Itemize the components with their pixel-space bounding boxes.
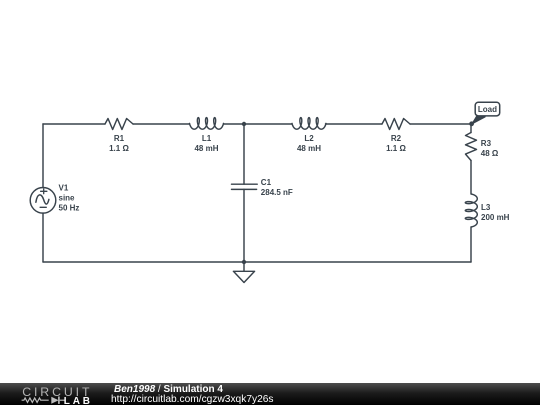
flag Load tail: [472, 115, 485, 124]
inductor L2: [292, 118, 326, 130]
wire top rail left of R1: [43, 123, 105, 125]
footer caption: [0, 383, 540, 405]
node junction at L1/L2/C1: [242, 122, 246, 126]
wire R3 to L3: [470, 161, 472, 195]
wire L1 to L2: [224, 123, 293, 125]
CircuitLab logo: [14, 383, 114, 405]
svg-text:48 mH: 48 mH: [194, 144, 218, 153]
wire R2 to node: [410, 123, 471, 125]
inductor L1: [190, 118, 224, 130]
wire bottom rail: [43, 261, 471, 263]
wire L2 to R2: [326, 123, 383, 125]
wire left rail lower: [42, 213, 44, 262]
svg-text:L1: L1: [202, 134, 212, 143]
svg-text:284.5 nF: 284.5 nF: [261, 188, 293, 197]
svg-text:L2: L2: [304, 134, 314, 143]
svg-text:50 Hz: 50 Hz: [59, 204, 80, 213]
voltage source V1: [30, 188, 56, 214]
svg-text:V1: V1: [59, 184, 69, 193]
wire L3 to bottom rail: [470, 227, 472, 262]
node junction at C1 bottom: [242, 260, 246, 264]
wire left rail upper: [42, 124, 44, 188]
svg-text:200 mH: 200 mH: [481, 213, 510, 222]
svg-text:R1: R1: [114, 134, 125, 143]
flag Load box: [475, 102, 500, 116]
node junction at load: [469, 121, 474, 126]
logo diode: [51, 397, 58, 404]
inductor L3: [465, 194, 477, 227]
wire right rail top to R3: [470, 124, 472, 133]
svg-text:1.1 Ω: 1.1 Ω: [109, 144, 129, 153]
wire C1 branch lower: [243, 189, 245, 262]
svg-text:C1: C1: [261, 178, 272, 187]
ground: [233, 262, 254, 283]
svg-text:48 mH: 48 mH: [297, 144, 321, 153]
svg-text:R2: R2: [391, 134, 402, 143]
resistor R2: [382, 119, 410, 130]
resistor R1: [105, 119, 133, 130]
footer bar: [0, 383, 540, 405]
wire C1 branch upper: [243, 124, 245, 184]
capacitor C1: [232, 184, 258, 189]
svg-text:1.1 Ω: 1.1 Ω: [386, 144, 406, 153]
logo resistor: [22, 398, 49, 402]
wire R1 to L1: [133, 123, 190, 125]
svg-text:48 Ω: 48 Ω: [481, 149, 499, 158]
svg-text:R3: R3: [481, 139, 492, 148]
svg-text:L3: L3: [481, 203, 491, 212]
resistor R3: [466, 133, 477, 161]
svg-text:Load: Load: [478, 105, 497, 114]
svg-text:sine: sine: [59, 194, 76, 203]
